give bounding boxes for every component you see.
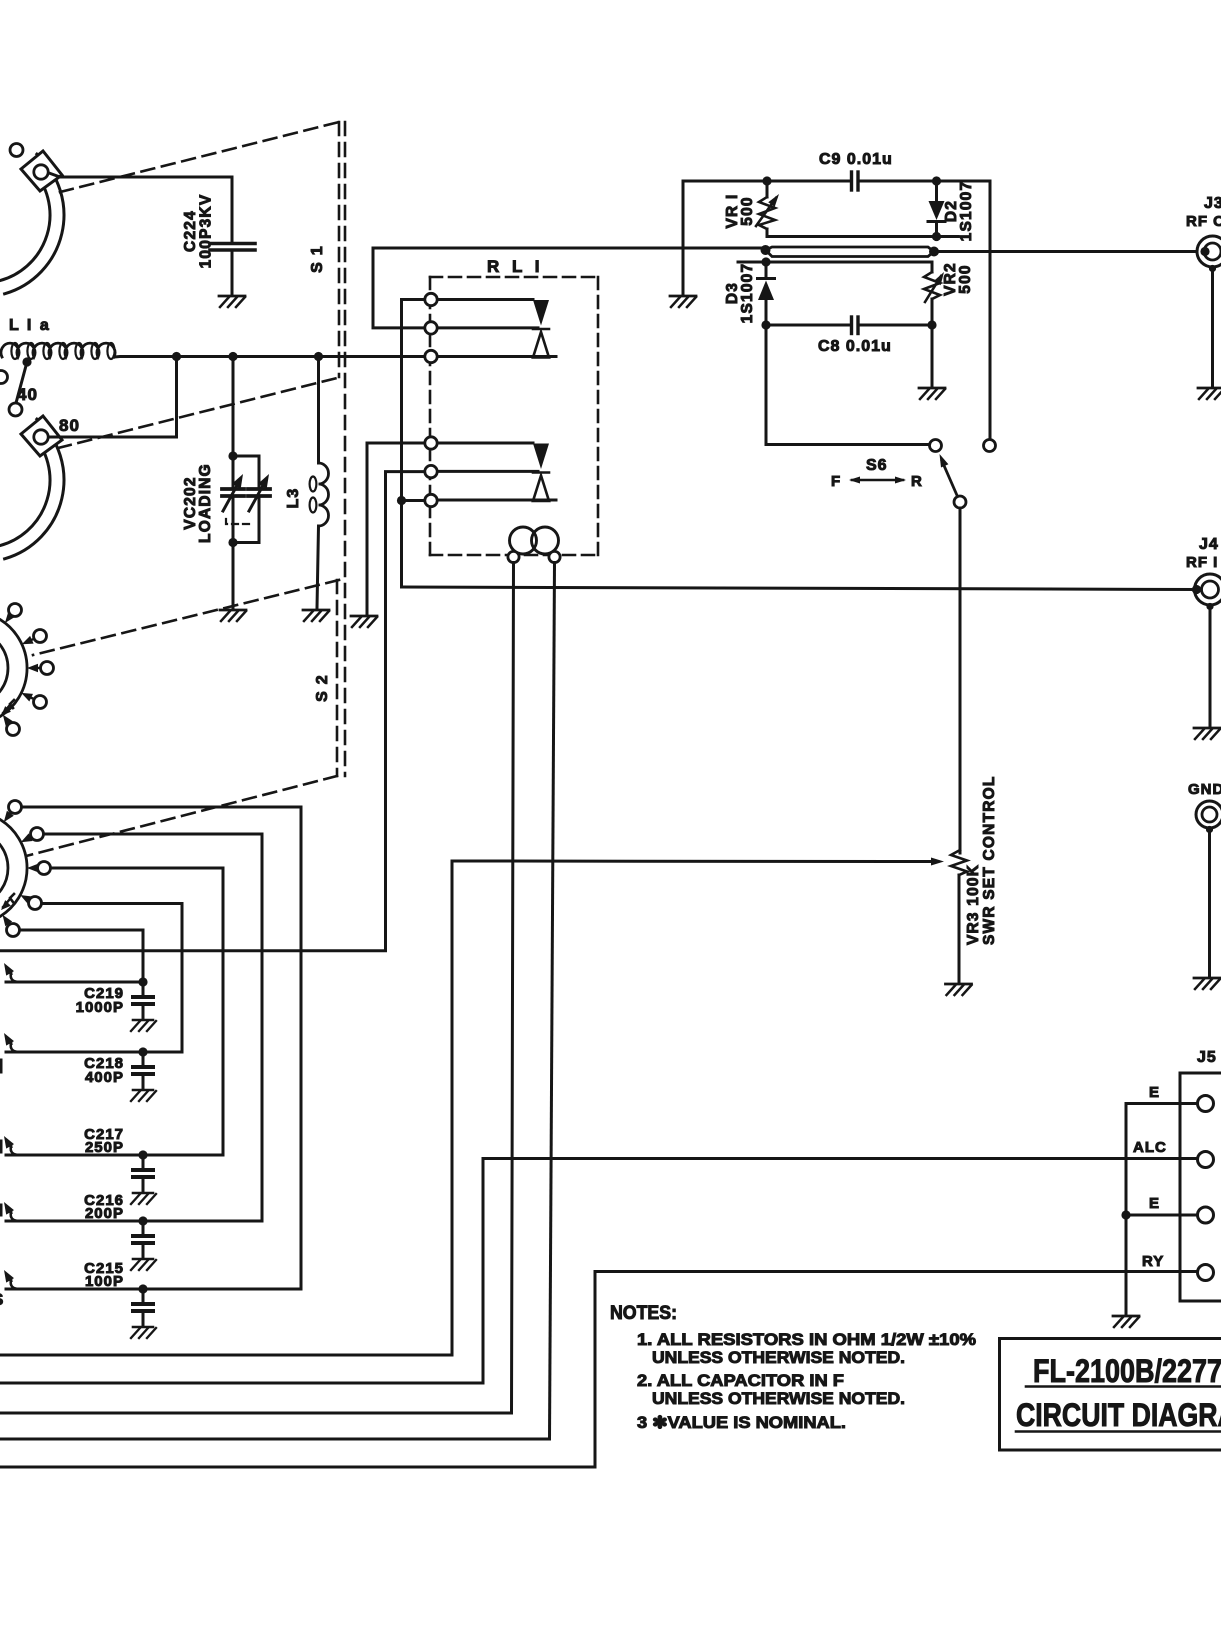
svg-text:500: 500 [957,264,974,293]
svg-text:FL-2100B/2277: FL-2100B/2277 [1033,1353,1221,1389]
svg-text:S6: S6 [866,457,888,474]
svg-text:GND: GND [1188,781,1221,798]
svg-text:S 2: S 2 [314,674,331,702]
svg-text:500: 500 [739,196,756,225]
svg-text:80: 80 [59,416,80,435]
svg-text:S 1: S 1 [309,245,326,273]
svg-text:J3: J3 [1204,195,1221,212]
svg-text:2. ALL CAPACITOR IN F: 2. ALL CAPACITOR IN F [637,1372,844,1390]
svg-text:L3: L3 [285,487,302,508]
svg-text:J5: J5 [1197,1049,1217,1066]
svg-text:L I a: L I a [9,317,51,334]
svg-text:E: E [1149,1084,1160,1101]
svg-text:RF I: RF I [1186,554,1218,571]
svg-text:200P: 200P [85,1205,124,1222]
svg-text:S: S [0,1290,5,1309]
svg-text:C224: C224 [182,210,199,252]
svg-text:J4: J4 [1199,536,1219,553]
svg-text:UNLESS OTHERWISE NOTED.: UNLESS OTHERWISE NOTED. [652,1349,905,1367]
svg-text:R: R [911,473,922,490]
svg-text:1S1007: 1S1007 [958,181,975,242]
svg-text:SWR SET CONTROL: SWR SET CONTROL [981,775,998,945]
svg-text:3 ✻VALUE IS NOMINAL.: 3 ✻VALUE IS NOMINAL. [637,1414,846,1432]
svg-text:UNLESS OTHERWISE NOTED.: UNLESS OTHERWISE NOTED. [652,1390,905,1408]
svg-text:100P3KV: 100P3KV [198,194,215,269]
svg-text:250P: 250P [85,1139,124,1156]
svg-text:LOADING: LOADING [197,463,214,543]
svg-text:RF O: RF O [1186,213,1221,230]
svg-text:C8 0.01u: C8 0.01u [818,338,892,355]
svg-text:R L I: R L I [487,257,544,276]
svg-text:400P: 400P [85,1069,124,1086]
svg-text:1000P: 1000P [76,999,124,1016]
svg-text:CIRCUIT DIAGRAM: CIRCUIT DIAGRAM [1016,1397,1221,1433]
svg-text:100P: 100P [85,1273,124,1290]
svg-text:E: E [1149,1195,1160,1212]
svg-text:RY: RY [1142,1253,1164,1270]
svg-text:C9 0.01u: C9 0.01u [819,151,893,168]
svg-text:1. ALL RESISTORS IN OHM 1/2W ±: 1. ALL RESISTORS IN OHM 1/2W ±10% [637,1331,976,1349]
svg-text:1S1007: 1S1007 [739,263,756,324]
svg-text:F: F [831,473,840,490]
svg-text:ALC: ALC [1133,1139,1167,1156]
svg-text:VR3 100K: VR3 100K [965,864,982,945]
svg-text:NOTES:: NOTES: [610,1303,677,1324]
